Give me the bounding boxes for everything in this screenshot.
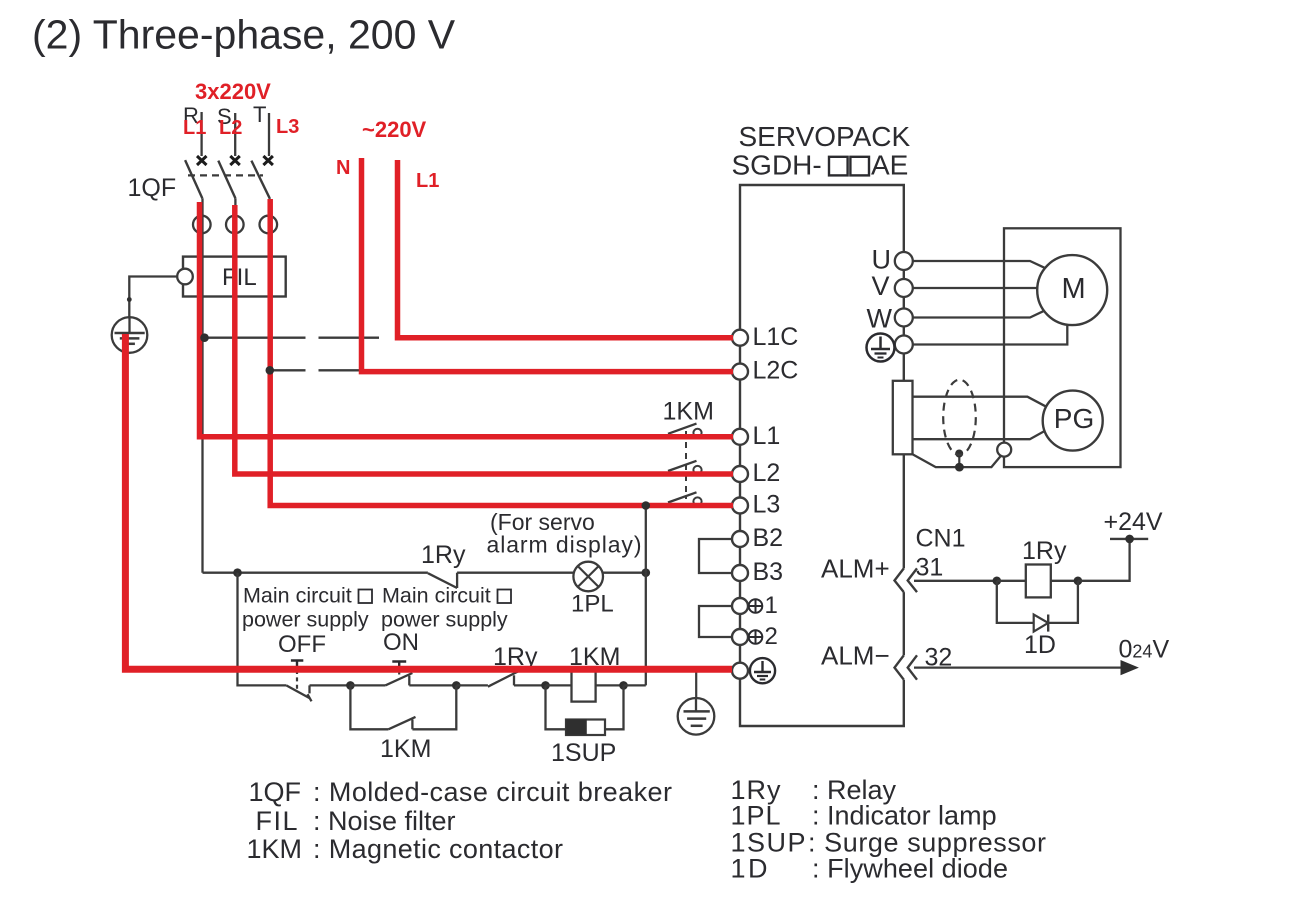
jumper P1-P2	[699, 606, 733, 637]
wire T phase vertical	[269, 198, 271, 505]
svg-text:L3: L3	[753, 491, 781, 519]
svg-text:W: W	[867, 304, 893, 334]
earth ground symbol left	[112, 317, 148, 353]
control top rail left	[203, 572, 428, 574]
wire FIL to earth	[129, 277, 177, 318]
breaker contact mark x R	[197, 156, 207, 165]
svg-text:L3: L3	[276, 116, 299, 138]
terminal circle S	[226, 216, 244, 234]
wire ALM- with arrow	[914, 660, 1139, 675]
motor unit box	[1004, 228, 1121, 467]
label 1KM contacts	[663, 398, 714, 426]
svg-text:CN1: CN1	[916, 525, 966, 553]
terminal PE output	[895, 336, 913, 354]
legend 1PL	[731, 801, 997, 831]
junction L2C tap	[266, 366, 275, 375]
junction off-on	[346, 681, 355, 690]
svg-text:1Ry: 1Ry	[1022, 537, 1067, 565]
junction top right	[642, 568, 651, 577]
svg-text:: Magnetic contactor: : Magnetic contactor	[313, 834, 563, 864]
svg-text:PG: PG	[1054, 403, 1094, 434]
svg-text:1KM: 1KM	[247, 834, 303, 864]
control left rail	[238, 573, 287, 686]
terminal L2C	[732, 357, 798, 385]
junction L3 control tap	[642, 501, 651, 510]
1KM main contact L1	[668, 424, 702, 437]
label CN1 31	[916, 525, 966, 582]
terminal L3	[732, 491, 780, 519]
pushbutton OFF	[278, 631, 350, 701]
wire V	[913, 287, 1038, 289]
wire motor PE	[913, 325, 1067, 345]
svg-text:ALM−: ALM−	[821, 641, 890, 671]
junction coil left	[541, 681, 550, 690]
svg-text:L1: L1	[183, 117, 206, 139]
PE terminal earth glyph	[750, 658, 775, 683]
junction relay right	[1074, 577, 1083, 586]
red wire phase L1 to terminal L1	[200, 202, 734, 437]
svg-text:B3: B3	[753, 558, 784, 586]
terminal V	[872, 271, 913, 301]
title heading	[32, 12, 456, 58]
wire U	[913, 261, 1047, 269]
wire L3 tap to control rail	[645, 506, 647, 573]
svg-text:N: N	[336, 157, 350, 179]
wire to chassis ground	[695, 673, 697, 700]
junction L1C tap	[200, 333, 209, 342]
servopack box outline	[740, 185, 904, 726]
svg-text:M: M	[1062, 273, 1086, 305]
wire to +24V	[1078, 508, 1163, 581]
svg-text:(2) Three-phase, 200 V: (2) Three-phase, 200 V	[32, 12, 456, 58]
wire coil to right rail	[624, 684, 646, 686]
svg-text:1Ry: 1Ry	[421, 541, 466, 569]
svg-text:31: 31	[916, 554, 944, 582]
relay coil 1Ry	[997, 537, 1078, 597]
wire W	[913, 310, 1047, 318]
surge suppressor 1SUP	[546, 685, 624, 767]
encoder connector CN2	[893, 381, 913, 455]
label ALM+	[821, 554, 890, 584]
phase T incoming line	[268, 113, 270, 156]
svg-text:AE: AE	[871, 150, 908, 181]
wire L2C black dashes	[270, 369, 360, 371]
legend 1D	[731, 854, 1009, 884]
red wire phase L2 to terminal L2	[235, 205, 733, 474]
phase R incoming line	[200, 112, 202, 156]
breaker 1QF blade S	[218, 161, 235, 199]
svg-text:FIL: FIL	[222, 264, 257, 291]
svg-text:1KM: 1KM	[663, 398, 714, 426]
breaker linkage dashed	[188, 174, 263, 176]
svg-text:1SUP: 1SUP	[551, 739, 616, 767]
svg-text:~220V: ~220V	[362, 117, 427, 142]
legend 1QF	[249, 777, 673, 807]
label R	[183, 103, 199, 128]
flywheel diode 1D branch	[997, 581, 1078, 659]
junction on earth wire	[127, 297, 132, 302]
svg-text:1D: 1D	[1024, 631, 1056, 659]
text main circuit 2	[381, 584, 511, 632]
legend 1SUP	[731, 828, 1047, 858]
svg-text:+24V: +24V	[1104, 508, 1163, 536]
connector pin ALM- chevrons	[895, 655, 918, 679]
svg-text:L2: L2	[753, 459, 781, 487]
svg-text:B2: B2	[753, 524, 784, 552]
red label L1 single phase	[416, 170, 439, 192]
terminal PE	[732, 663, 748, 679]
terminal W	[867, 304, 913, 334]
svg-text:FIL: FIL	[256, 806, 298, 836]
svg-text:L2: L2	[219, 117, 242, 139]
svg-text:3x220V: 3x220V	[195, 79, 271, 104]
svg-text:ON: ON	[383, 629, 419, 656]
svg-text:1: 1	[765, 592, 778, 619]
svg-text:: Indicator lamp: : Indicator lamp	[812, 801, 997, 831]
svg-text:024V: 024V	[1119, 636, 1170, 664]
red label L1 phase	[183, 117, 206, 139]
svg-text:SGDH-: SGDH-	[732, 150, 822, 181]
motor M circle	[1037, 255, 1107, 325]
pushbutton ON	[350, 629, 456, 685]
chassis earth symbol below servopack	[678, 698, 715, 735]
svg-text:power supply: power supply	[242, 608, 369, 632]
label 1QF	[128, 174, 177, 202]
breaker 1QF blade T	[251, 161, 269, 199]
1KM linkage dashed	[685, 431, 687, 499]
servopack heading text	[732, 121, 911, 181]
label 024V	[1119, 636, 1170, 664]
svg-text:ALM+: ALM+	[821, 554, 890, 584]
svg-text:Main circuit: Main circuit	[382, 584, 491, 608]
svg-text:OFF: OFF	[278, 631, 326, 658]
red wire L1 to terminal L1C	[398, 160, 734, 338]
junction on-right	[452, 681, 461, 690]
red wire earth to terminal PE	[125, 334, 732, 669]
legend 1Ry	[731, 775, 897, 805]
motor frame ground circle	[997, 443, 1011, 457]
phase S incoming line	[234, 113, 236, 156]
1KM main contact L3	[668, 492, 702, 505]
shield drain wire	[913, 450, 1001, 472]
terminal circle R	[193, 216, 211, 234]
red label ~220V	[362, 117, 427, 142]
label ALM-	[821, 641, 890, 671]
svg-text:: Noise filter: : Noise filter	[313, 806, 456, 836]
contactor coil 1KM	[546, 643, 624, 702]
red label L3 phase	[276, 116, 299, 138]
earth glyph at PE output	[867, 334, 895, 362]
svg-text:1D: 1D	[731, 854, 768, 884]
svg-text:1PL: 1PL	[571, 591, 614, 618]
svg-text:V: V	[872, 271, 890, 301]
auxiliary contact 1KM	[350, 685, 456, 763]
label T	[253, 102, 266, 127]
wire S phase vertical	[234, 198, 236, 474]
junction relay left	[993, 577, 1002, 586]
red label N	[336, 157, 350, 179]
indicator lamp 1PL	[571, 562, 614, 618]
red wire N to terminal L2C	[362, 158, 734, 372]
svg-text:L1: L1	[416, 170, 439, 192]
terminal L1	[732, 422, 780, 450]
svg-text:: Molded-case circuit breaker: : Molded-case circuit breaker	[313, 777, 672, 807]
red wire phase L3 to terminal L3	[270, 199, 733, 506]
svg-text:L1: L1	[753, 422, 781, 450]
legend 1KM	[247, 834, 564, 864]
svg-text:L2C: L2C	[753, 357, 799, 385]
breaker contact mark x T	[263, 156, 273, 165]
svg-text:1QF: 1QF	[128, 174, 177, 202]
FIL left terminal circle	[177, 269, 193, 285]
text main circuit 1	[242, 584, 372, 632]
terminal L1C	[732, 323, 798, 351]
svg-text:1QF: 1QF	[249, 777, 302, 807]
terminal circle T	[260, 216, 278, 234]
terminal plus1	[732, 592, 778, 619]
label 32	[925, 644, 953, 672]
relay contact 1Ry bottom	[456, 643, 545, 687]
wire ALM+	[914, 580, 997, 582]
svg-text:1PL: 1PL	[731, 801, 781, 831]
control top rail right	[457, 572, 646, 574]
terminal plus2	[732, 623, 778, 650]
wire R phase vertical	[201, 198, 203, 572]
svg-text:L1C: L1C	[753, 323, 799, 351]
breaker 1QF blade R	[185, 160, 202, 198]
terminal B3	[732, 558, 783, 586]
encoder wire bottom	[913, 431, 1046, 440]
terminal B2	[732, 524, 783, 552]
jumper B2-B3	[699, 539, 733, 573]
svg-text:T: T	[253, 102, 266, 127]
legend FIL	[256, 806, 456, 836]
label S	[217, 104, 232, 129]
encoder PG circle	[1043, 391, 1103, 451]
svg-text:U: U	[872, 245, 892, 275]
control right rail	[645, 573, 647, 686]
breaker contact mark x S	[230, 156, 240, 165]
1KM main contact L2	[668, 461, 702, 474]
svg-text:alarm display): alarm display)	[487, 532, 642, 558]
svg-text:: Flywheel diode: : Flywheel diode	[812, 854, 1008, 884]
junction coil right	[619, 681, 628, 690]
terminal L2	[732, 459, 780, 487]
red label 3x220V	[195, 79, 271, 104]
encoder wire top	[913, 397, 1046, 407]
relay contact 1Ry top	[421, 541, 466, 588]
noise filter FIL box	[183, 257, 286, 297]
red label L2 phase	[219, 117, 242, 139]
svg-text:power supply: power supply	[381, 608, 508, 632]
svg-text:Main circuit: Main circuit	[243, 584, 352, 608]
terminal U	[872, 245, 913, 275]
svg-text:1KM: 1KM	[380, 735, 431, 763]
text for servo alarm display	[487, 509, 642, 558]
junction control tap	[233, 568, 242, 577]
svg-text:2: 2	[765, 623, 778, 650]
connector pin ALM+ chevrons	[895, 568, 918, 592]
svg-text:SERVOPACK: SERVOPACK	[739, 121, 911, 152]
shield ellipse dashed	[943, 380, 976, 455]
wire L1C black dashes	[205, 337, 380, 339]
